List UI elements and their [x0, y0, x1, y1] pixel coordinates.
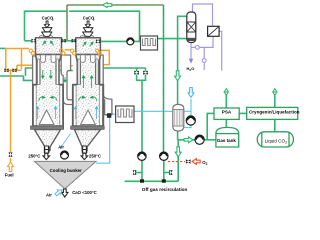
svg-text:Air: Air: [46, 193, 52, 198]
svg-text:Gas tank: Gas tank: [217, 138, 237, 143]
svg-text:PSA: PSA: [222, 110, 232, 115]
svg-text:Cryogenic/Liquefaction: Cryogenic/Liquefaction: [249, 109, 300, 114]
svg-text:CaO <100°C: CaO <100°C: [72, 190, 97, 195]
svg-text:Liquid CO: Liquid CO: [265, 138, 286, 143]
svg-text:2: 2: [285, 140, 287, 144]
svg-text:Cooling bunker: Cooling bunker: [50, 168, 82, 173]
svg-text:2: 2: [206, 162, 208, 166]
svg-text:O: O: [191, 66, 194, 71]
svg-text:250°C: 250°C: [89, 154, 101, 159]
svg-text:Fuel: Fuel: [5, 172, 14, 177]
svg-text:250°C: 250°C: [28, 154, 40, 159]
svg-text:Off gas recirculation: Off gas recirculation: [142, 187, 188, 192]
svg-text:Air: Air: [58, 144, 64, 149]
